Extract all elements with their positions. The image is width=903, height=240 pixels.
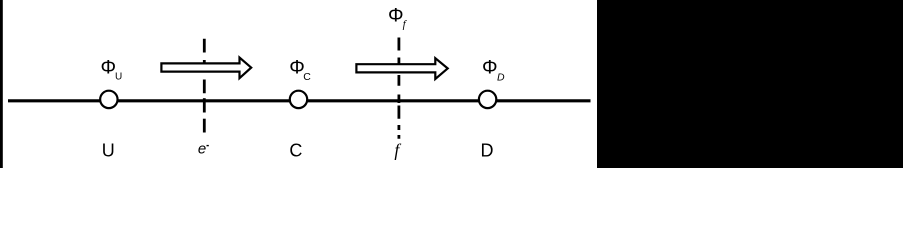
svg-text:Φ: Φ — [388, 5, 404, 27]
svg-text:Φ: Φ — [482, 56, 498, 78]
svg-text:C: C — [289, 140, 302, 160]
svg-text:C: C — [303, 71, 311, 83]
svg-text:U: U — [115, 71, 122, 82]
svg-text:D: D — [497, 71, 505, 83]
svg-text:U: U — [102, 140, 115, 160]
svg-text:D: D — [481, 140, 494, 160]
svg-text:Φ: Φ — [101, 56, 117, 78]
svg-text:e: e — [198, 141, 206, 158]
